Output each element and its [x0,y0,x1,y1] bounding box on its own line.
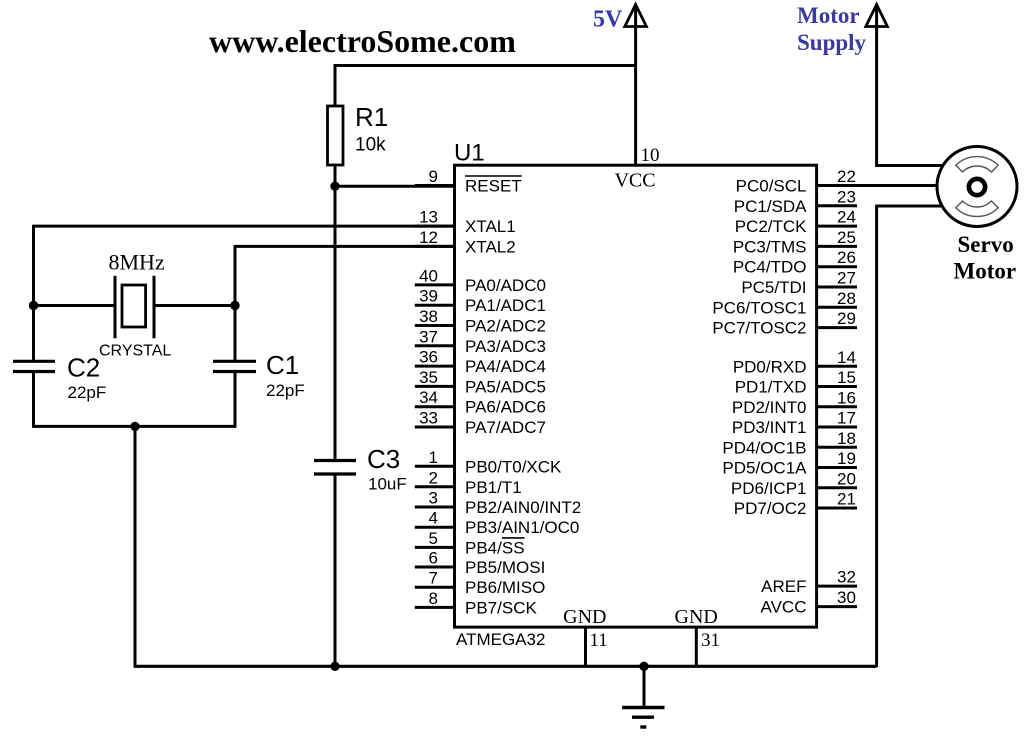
wire C2 bottom [32,372,35,428]
svg-text:PB7/SCK: PB7/SCK [465,598,537,617]
pin 36 PA4/ADC4 [415,348,546,377]
pin 16 PD2/INT0 [732,388,857,417]
pin number 11 [590,630,608,651]
svg-text:PD2/INT0: PD2/INT0 [732,398,807,417]
svg-text:Servo: Servo [958,232,1014,257]
svg-text:PA7/ADC7: PA7/ADC7 [465,418,546,437]
svg-text:22pF: 22pF [266,381,305,400]
pin 38 PA2/ADC2 [415,307,546,336]
svg-text:21: 21 [837,490,856,509]
pin 22 PC0/SCL [736,167,856,196]
pin 15 PD1/TXD [735,368,857,397]
junction reset node [330,182,339,191]
pin 40 PA0/ADC0 [415,266,546,295]
svg-text:PC1/SDA: PC1/SDA [734,197,807,216]
servo motor M1 [937,147,1017,227]
GND pin 31 label [675,606,718,628]
svg-text:32: 32 [837,568,856,587]
GND pin 11 label [563,606,606,628]
wire reset node to pin 9 [335,185,455,188]
svg-text:38: 38 [419,307,438,326]
wire GND pin 31 stub [695,627,698,666]
wire XTAL1 to pin 13 [34,225,455,362]
svg-text:PA0/ADC0: PA0/ADC0 [465,276,546,295]
VCC pin label [614,170,655,192]
svg-text:15: 15 [837,368,856,387]
svg-text:22pF: 22pF [68,383,107,402]
svg-text:PB0/T0/XCK: PB0/T0/XCK [465,457,562,476]
svg-text:PD6/ICP1: PD6/ICP1 [731,479,807,498]
pin 24 PC2/TCK [735,208,857,237]
pin number 10 [641,145,660,166]
svg-text:PB1/T1: PB1/T1 [465,478,522,497]
pin 28 PC6/TOSC1 [712,289,857,318]
wire XTAL2 to pin 12 [235,245,455,362]
pin 18 PD4/OC1B [722,429,857,458]
svg-text:PB2/AIN0/INT2: PB2/AIN0/INT2 [465,498,581,517]
5V label [593,7,623,33]
pin 30 AVCC [761,588,857,617]
svg-text:PC2/TCK: PC2/TCK [735,217,807,236]
pin 21 PD7/OC2 [734,490,857,519]
svg-text:16: 16 [837,388,856,407]
svg-text:5: 5 [429,529,438,548]
crystal X1 8MHz [99,250,171,360]
svg-text:2: 2 [429,468,438,487]
junction capacitor rail node [130,422,139,431]
pin 26 PC4/TDO [733,248,857,277]
pin 6 PB5/MOSI [415,549,546,578]
wire crystal left [34,304,116,307]
svg-text:24: 24 [837,208,856,227]
junction crystal right node [230,301,239,310]
svg-text:19: 19 [837,449,856,468]
svg-text:PA4/ADC4: PA4/ADC4 [465,357,546,376]
svg-text:PC5/TDI: PC5/TDI [741,278,806,297]
svg-text:PA5/ADC5: PA5/ADC5 [465,377,546,396]
svg-text:4: 4 [429,509,438,528]
title www.electroSome.com [209,23,516,59]
svg-text:23: 23 [837,187,856,206]
svg-text:PD7/OC2: PD7/OC2 [734,499,807,518]
svg-text:10: 10 [641,145,660,166]
svg-text:12: 12 [419,228,438,247]
pin 19 PD5/OC1A [722,449,857,478]
svg-text:5V: 5V [593,7,623,33]
svg-text:14: 14 [837,348,856,367]
wire ground rail [135,665,877,668]
svg-text:22: 22 [837,167,856,186]
svg-text:Supply: Supply [797,30,867,55]
wire C1 bottom [234,372,237,428]
pin 4 PB3/AIN1/OC0 [415,509,580,538]
svg-text:XTAL1: XTAL1 [465,217,516,236]
5V power arrow [625,5,647,31]
svg-text:ATMEGA32: ATMEGA32 [456,630,545,649]
wire capacitor bottom rail [34,425,236,428]
svg-text:XTAL2: XTAL2 [465,237,516,256]
pin 17 PD3/INT1 [732,409,857,438]
pin 8 PB7/SCK [415,589,538,618]
svg-text:27: 27 [837,269,856,288]
wire node to C3 top [334,186,337,461]
wire GND pin 11 stub [584,627,587,666]
svg-text:R1: R1 [355,102,388,132]
pin number 31 [701,630,720,651]
svg-text:30: 30 [837,588,856,607]
Motor Supply label [797,3,867,55]
U1 designator [454,140,485,167]
junction C3 ground node [330,662,339,671]
svg-text:PC3/TMS: PC3/TMS [733,237,807,256]
svg-text:PD3/INT1: PD3/INT1 [732,418,807,437]
svg-text:PC7/TOSC2: PC7/TOSC2 [712,319,806,338]
pin 13 XTAL1 [415,208,516,237]
wire R1 bottom to node [334,165,337,187]
svg-text:GND: GND [563,606,606,628]
pin 23 PC1/SDA [734,187,857,216]
svg-text:25: 25 [837,228,856,247]
svg-text:3: 3 [429,489,438,508]
svg-text:www.electroSome.com: www.electroSome.com [209,23,516,59]
Motor Supply power arrow [866,5,888,31]
svg-text:PB4/SS: PB4/SS [465,538,525,557]
svg-text:PD5/OC1A: PD5/OC1A [722,459,807,478]
wire cap rail to ground rail [134,426,137,667]
ground symbol [622,666,665,727]
svg-text:18: 18 [837,429,856,448]
pin 7 PB6/MISO [415,569,546,598]
junction crystal left node [29,301,38,310]
svg-text:VCC: VCC [614,170,655,192]
svg-text:39: 39 [419,287,438,306]
svg-text:26: 26 [837,248,856,267]
svg-text:11: 11 [590,630,608,651]
pin 39 PA1/ADC1 [415,287,546,316]
svg-text:CRYSTAL: CRYSTAL [99,343,171,360]
svg-text:8MHz: 8MHz [109,250,165,275]
pin 20 PD6/ICP1 [731,469,857,498]
pin 35 PA5/ADC5 [415,368,546,397]
svg-text:PB3/AIN1/OC0: PB3/AIN1/OC0 [465,518,579,537]
pin 32 AREF [761,568,857,597]
junction ground symbol node [639,662,648,671]
pin 34 PA6/ADC6 [415,388,546,417]
wire 5V rail to R1 top [335,64,636,106]
svg-text:PA1/ADC1: PA1/ADC1 [465,296,546,315]
pin 37 PA3/ADC3 [415,327,546,356]
svg-text:PD0/RXD: PD0/RXD [733,357,807,376]
svg-text:31: 31 [701,630,720,651]
svg-text:13: 13 [419,208,438,227]
svg-text:33: 33 [419,409,438,428]
svg-text:29: 29 [837,309,856,328]
svg-text:PB6/MISO: PB6/MISO [465,578,545,597]
pin 29 PC7/TOSC2 [712,309,857,338]
wire C3 bottom to ground rail [334,474,337,667]
svg-text:37: 37 [419,327,438,346]
capacitor C1 22pF [213,350,305,400]
wire servo ground [877,205,942,667]
pin 5 PB4/SS [415,529,525,558]
wire pin 22 to servo signal [817,184,938,187]
pin 9 RESET [415,167,522,196]
svg-text:GND: GND [675,606,718,628]
svg-text:PD1/TXD: PD1/TXD [735,378,807,397]
capacitor C3 10uF [314,444,407,494]
svg-text:34: 34 [419,388,438,407]
svg-text:C3: C3 [367,444,400,474]
svg-text:PD4/OC1B: PD4/OC1B [722,438,806,457]
svg-text:28: 28 [837,289,856,308]
resistor R1 [328,102,389,165]
svg-text:20: 20 [837,469,856,488]
svg-text:C2: C2 [67,353,100,383]
svg-text:17: 17 [837,409,856,428]
svg-text:RESET: RESET [465,177,522,196]
pin 3 PB2/AIN0/INT2 [415,489,581,518]
svg-text:10k: 10k [355,135,386,156]
svg-text:35: 35 [419,368,438,387]
pin 12 XTAL2 [415,228,516,257]
wire crystal right [154,304,235,307]
svg-text:U1: U1 [454,140,485,167]
svg-text:Motor: Motor [797,3,860,28]
svg-text:AVCC: AVCC [761,598,807,617]
svg-text:9: 9 [429,167,438,186]
Servo Motor label [954,232,1017,284]
svg-text:Motor: Motor [954,259,1017,284]
pin 14 PD0/RXD [733,348,857,377]
svg-text:1: 1 [429,448,438,467]
svg-text:PB5/MOSI: PB5/MOSI [465,558,545,577]
svg-text:40: 40 [419,266,438,285]
svg-text:C1: C1 [266,350,299,380]
op-amp U1 ATMEGA32 chip body [455,165,817,627]
pin 2 PB1/T1 [415,468,522,497]
svg-text:PC4/TDO: PC4/TDO [733,258,807,277]
pin 33 PA7/ADC7 [415,409,546,438]
wire Motor Supply to servo [875,26,943,166]
svg-text:PA2/ADC2: PA2/ADC2 [465,317,546,336]
capacitor C2 22pF [13,353,106,403]
svg-text:PA6/ADC6: PA6/ADC6 [465,398,546,417]
svg-text:10uF: 10uF [368,475,407,494]
wire 5V to VCC pin 10 [634,26,637,167]
svg-text:7: 7 [429,569,438,588]
pin 25 PC3/TMS [733,228,857,257]
pin 27 PC5/TDI [741,269,857,298]
svg-text:AREF: AREF [761,577,806,596]
ATMEGA32 value label [456,630,545,649]
svg-text:8: 8 [429,589,438,608]
svg-text:PA3/ADC3: PA3/ADC3 [465,337,546,356]
svg-text:6: 6 [429,549,438,568]
svg-text:PC6/TOSC1: PC6/TOSC1 [712,298,806,317]
svg-text:36: 36 [419,348,438,367]
svg-text:PC0/SCL: PC0/SCL [736,177,807,196]
pin 1 PB0/T0/XCK [415,448,562,477]
